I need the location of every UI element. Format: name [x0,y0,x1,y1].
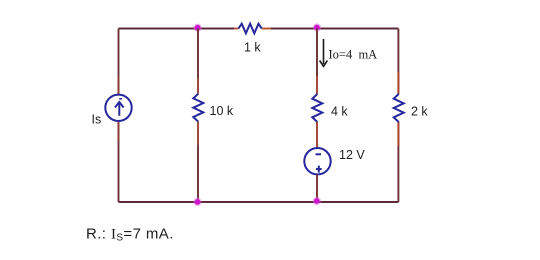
current arrow Io (black, pointing down) [320,39,328,66]
resistor R 1k (horizontal zigzag) [239,24,262,34]
wire: 1k left lead stub [234,28,239,30]
svg-text:1 k: 1 k [244,41,261,55]
voltage source 12V (circle with - on top, + at bottom) [304,148,330,174]
wire: 1k right lead stub [262,28,271,30]
wire: 10k branch bottom lead [197,122,199,145]
left rail wire [118,29,120,203]
resistor R 2k (vertical zigzag) [394,94,404,122]
svg-text:10 k: 10 k [210,104,234,118]
svg-text:12 V: 12 V [339,148,365,162]
node junction dot bottom of 10k branch [193,198,201,206]
wire: 2k bottom lead tint [397,122,399,146]
svg-text:4 k: 4 k [331,105,348,119]
svg-text:Is: Is [92,112,102,126]
wire: current source top lead tint [118,76,120,95]
resistor R 4k (vertical zigzag) [312,94,322,122]
node junction dot top of 4k branch [313,23,321,31]
node junction dot bottom of 12V branch [313,197,321,205]
current source Is (circle with up arrow) [105,95,131,121]
wire: 10k branch top lead [197,29,199,79]
top wire (node A rail) [119,28,399,30]
node junction dot top of 10k branch [193,24,201,32]
svg-text:R.: IS=7 mA.: R.: IS=7 mA. [86,226,174,244]
wire: 12V source bottom lead [316,174,318,202]
wire: 2k top lead tint [397,72,399,94]
wire: lead between 4k and 12V source [316,122,318,148]
right rail wire [397,29,399,203]
svg-text:2 k: 2 k [411,105,428,119]
wire: current source bottom lead tint [118,121,120,142]
bottom wire rail [119,201,399,203]
wire: 4k branch top lead [316,29,318,77]
svg-text:Io=4 mA: Io=4 mA [329,48,378,62]
resistor R 10k (vertical zigzag) [193,94,203,122]
